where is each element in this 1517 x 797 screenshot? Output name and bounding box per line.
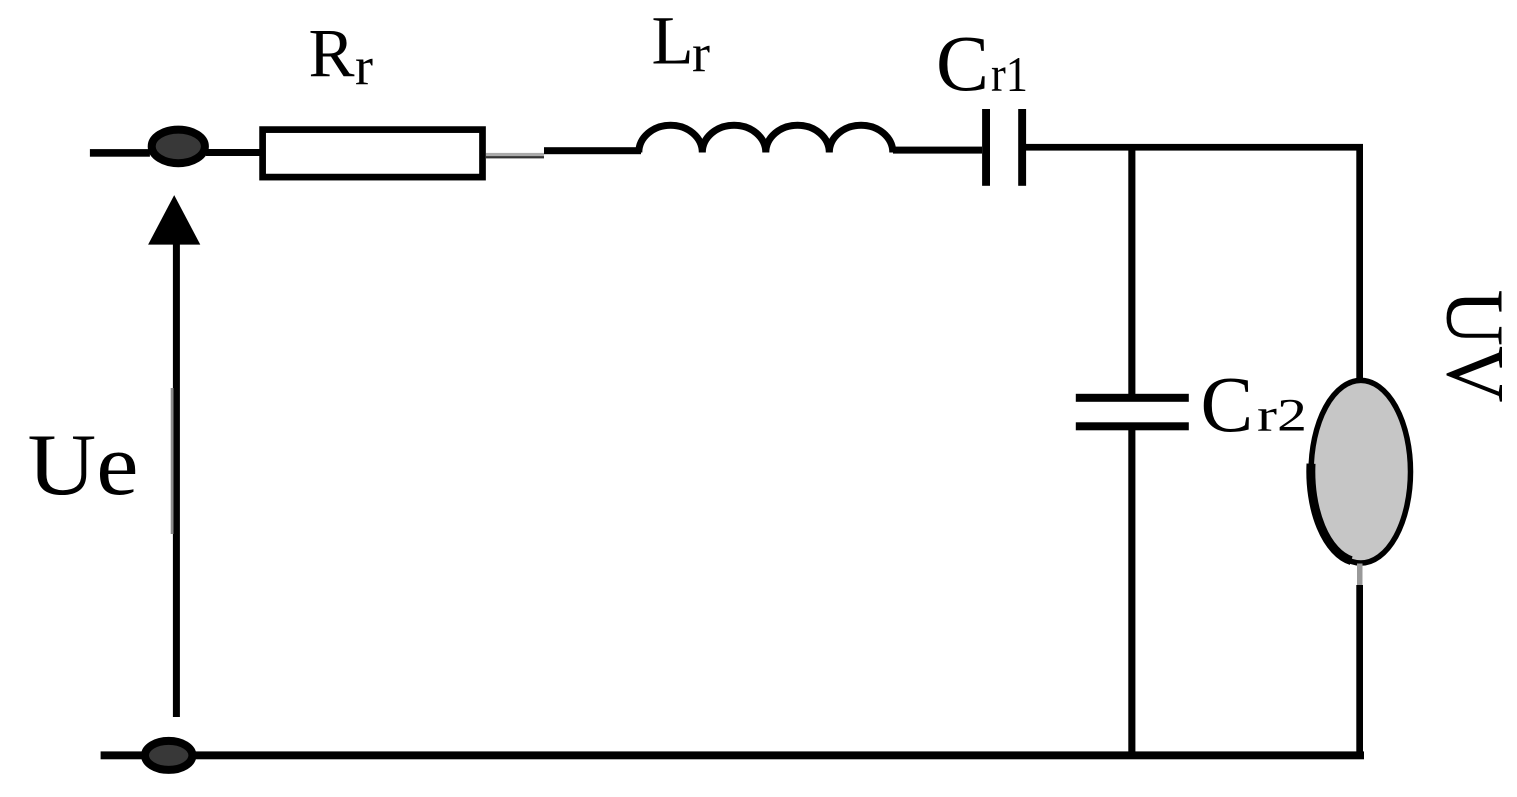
svg-text:C: C <box>1201 362 1254 449</box>
svg-text:r: r <box>355 37 373 97</box>
svg-text:L: L <box>652 2 694 78</box>
svg-text:UV: UV <box>1430 290 1517 403</box>
svg-text:r: r <box>692 24 710 84</box>
svg-text:r2: r2 <box>1257 390 1307 442</box>
svg-text:r1: r1 <box>991 46 1028 102</box>
svg-text:R: R <box>309 16 355 92</box>
svg-text:Ue: Ue <box>28 417 139 514</box>
svg-text:C: C <box>936 20 989 108</box>
